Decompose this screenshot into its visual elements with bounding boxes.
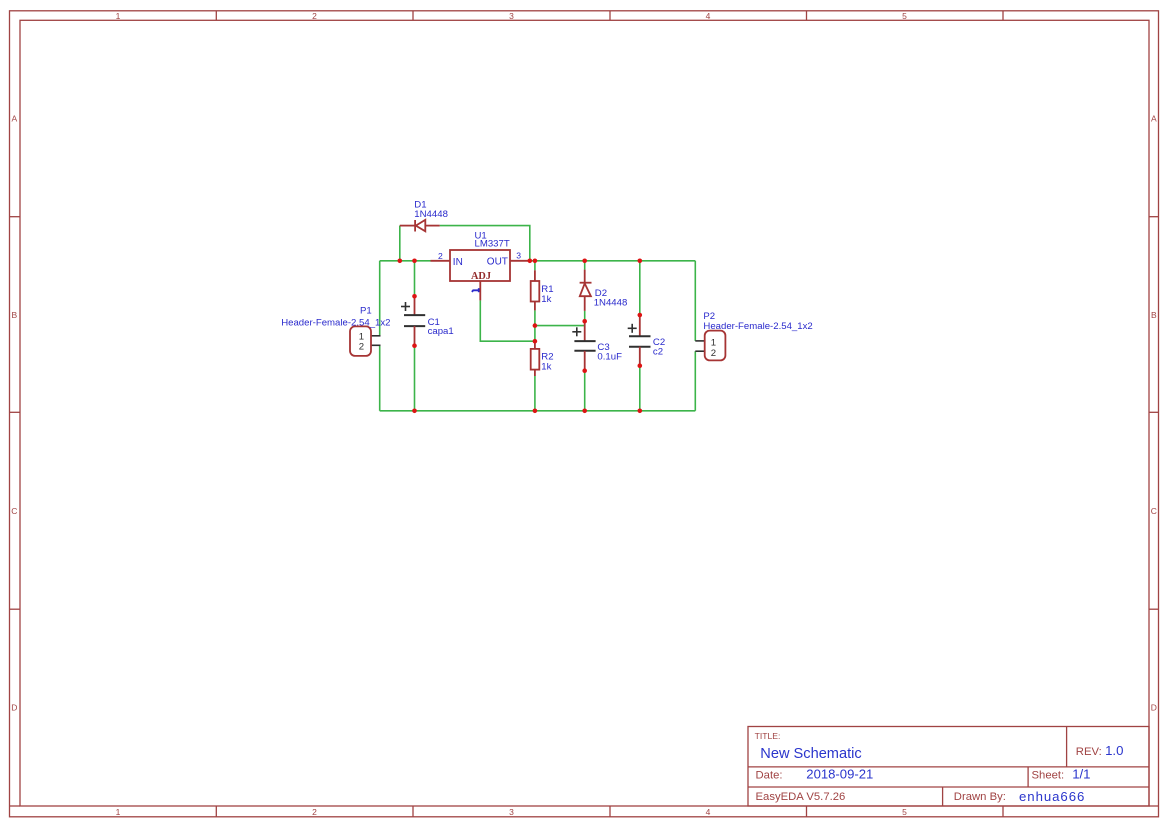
- wire: P1 upper vertical: [379, 261, 381, 336]
- svg-text:OUT: OUT: [487, 257, 508, 268]
- svg-text:capa1: capa1: [428, 326, 454, 337]
- connector P1: [350, 326, 381, 356]
- svg-text:3: 3: [509, 807, 514, 817]
- svg-text:IN: IN: [453, 257, 463, 268]
- svg-text:1/1: 1/1: [1072, 767, 1090, 782]
- svg-text:2018-09-21: 2018-09-21: [806, 767, 873, 782]
- svg-text:2: 2: [711, 348, 716, 359]
- svg-text:1k: 1k: [541, 294, 551, 305]
- diode D1: [400, 220, 440, 232]
- svg-text:REV:: REV:: [1076, 746, 1102, 758]
- svg-text:enhua666: enhua666: [1019, 789, 1085, 804]
- wire: ADJ to divider: [480, 300, 535, 341]
- capacitor C1: [401, 296, 425, 345]
- svg-text:2: 2: [359, 342, 364, 353]
- wire: C3 bottom: [584, 371, 586, 411]
- wire: D2 top: [584, 261, 586, 270]
- svg-text:B: B: [11, 310, 17, 320]
- wire: D2 bottom to C3: [584, 311, 586, 321]
- svg-text:LM337T: LM337T: [475, 239, 510, 250]
- wire: D1 right return to OUT: [440, 226, 530, 261]
- pin number 1 rotated: [472, 288, 479, 292]
- wire: R2 bottom: [534, 376, 536, 411]
- wire: C1 bottom: [414, 346, 416, 411]
- capacitor C2: [628, 315, 651, 366]
- svg-text:0.1uF: 0.1uF: [597, 352, 622, 363]
- wire: P2 lower vertical: [694, 351, 696, 411]
- svg-text:B: B: [1151, 310, 1157, 320]
- title block: [748, 727, 1149, 807]
- wire: C2 top: [639, 261, 641, 315]
- capacitor C3: [572, 321, 595, 371]
- svg-text:ADJ: ADJ: [471, 271, 491, 282]
- svg-text:1: 1: [116, 807, 121, 817]
- svg-text:3: 3: [509, 11, 514, 21]
- svg-text:D: D: [1151, 703, 1157, 713]
- diode D2: [580, 270, 592, 311]
- svg-text:TITLE:: TITLE:: [755, 731, 781, 741]
- svg-text:1: 1: [116, 11, 121, 21]
- resistor R1: [531, 270, 540, 310]
- svg-text:2: 2: [312, 807, 317, 817]
- wire: output rail: [529, 260, 695, 262]
- svg-text:Date:: Date:: [756, 770, 783, 782]
- wire: input rail: [380, 260, 431, 262]
- svg-text:5: 5: [902, 11, 907, 21]
- svg-text:A: A: [11, 114, 17, 124]
- svg-text:4: 4: [706, 807, 711, 817]
- svg-text:Header-Female-2.54_1x2: Header-Female-2.54_1x2: [281, 317, 390, 328]
- resistor R2: [531, 341, 540, 376]
- svg-text:Sheet:: Sheet:: [1032, 770, 1065, 782]
- wire: C2 bottom: [639, 366, 641, 411]
- op-amp U1 regulator body: [431, 250, 530, 300]
- svg-text:Header-Female-2.54_1x2: Header-Female-2.54_1x2: [703, 321, 812, 332]
- wire: R1 top: [534, 261, 536, 271]
- svg-text:Drawn By:: Drawn By:: [954, 791, 1006, 803]
- svg-text:2: 2: [438, 251, 443, 261]
- svg-text:1N4448: 1N4448: [414, 209, 448, 220]
- wire: R1 bottom to R2: [534, 310, 536, 341]
- svg-text:1.0: 1.0: [1105, 743, 1123, 758]
- svg-text:D: D: [11, 703, 17, 713]
- svg-text:1k: 1k: [541, 361, 551, 372]
- svg-text:C: C: [11, 506, 17, 516]
- svg-text:c2: c2: [653, 347, 663, 358]
- wire: C1 top: [414, 261, 416, 297]
- svg-text:A: A: [1151, 114, 1157, 124]
- wire: P2 upper vertical: [694, 261, 696, 341]
- connector P2: [695, 331, 725, 361]
- wire: bottom rail: [380, 410, 696, 412]
- wire: P1 lower vertical: [379, 345, 381, 411]
- svg-text:New Schematic: New Schematic: [760, 746, 861, 762]
- svg-text:C: C: [1151, 506, 1157, 516]
- junction dots: [398, 259, 643, 414]
- svg-text:4: 4: [706, 11, 711, 21]
- svg-text:1N4448: 1N4448: [594, 298, 628, 309]
- svg-text:2: 2: [312, 11, 317, 21]
- svg-text:3: 3: [516, 251, 521, 261]
- svg-text:5: 5: [902, 807, 907, 817]
- svg-text:P1: P1: [360, 306, 372, 317]
- svg-text:EasyEDA V5.7.26: EasyEDA V5.7.26: [756, 791, 846, 803]
- wire: feedback horizontal: [535, 325, 585, 327]
- wire: D1 left vertical: [399, 226, 401, 261]
